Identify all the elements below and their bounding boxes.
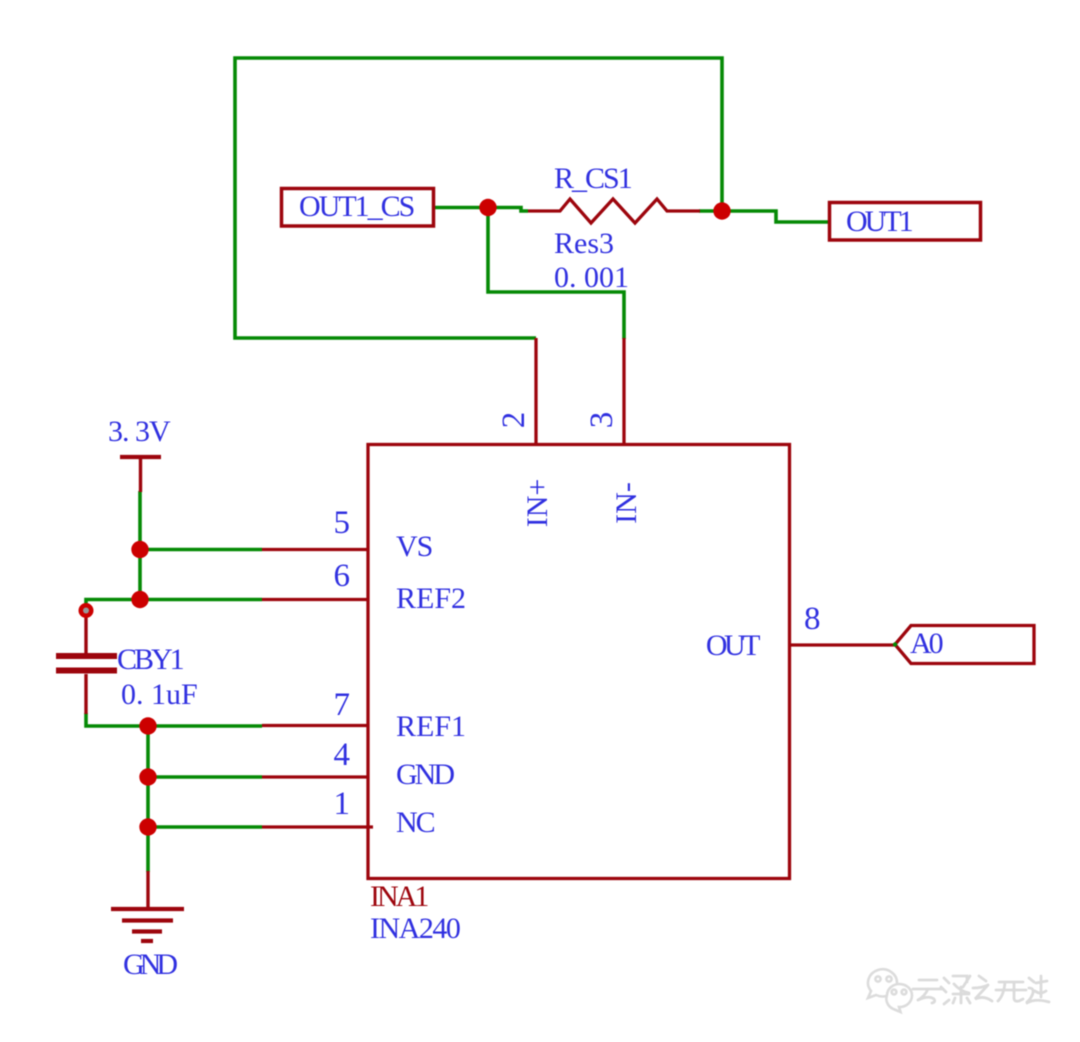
capacitor CBY1 xyxy=(56,612,117,714)
pin 3 IN- xyxy=(622,338,625,445)
junction rail / pin 6 xyxy=(131,591,148,608)
svg-text:REF2: REF2 xyxy=(396,582,466,615)
junction node / pin 1 xyxy=(139,818,156,835)
svg-text:INA1: INA1 xyxy=(370,880,428,913)
pin 2 IN+ xyxy=(534,338,537,445)
svg-text:CBY1: CBY1 xyxy=(117,643,184,676)
svg-text:GND: GND xyxy=(396,758,454,791)
resistor R_CS1 xyxy=(528,199,700,223)
svg-text:R_CS1: R_CS1 xyxy=(554,162,632,195)
wire: 3.3V rail vertical xyxy=(138,491,142,600)
junction rail / pin 5 xyxy=(131,541,148,558)
svg-text:INA240: INA240 xyxy=(370,912,460,945)
svg-text:2: 2 xyxy=(496,412,532,429)
svg-text:4: 4 xyxy=(334,737,351,773)
wire: node to pin NC xyxy=(148,825,262,829)
junction at OUT1_CS / R_CS1 xyxy=(479,199,496,216)
svg-text:IN+: IN+ xyxy=(521,479,554,528)
junction node / pin 4 xyxy=(139,768,156,785)
svg-text:REF1: REF1 xyxy=(396,710,466,743)
power symbol 3.3V bar xyxy=(120,457,161,492)
port A0 xyxy=(895,626,1034,664)
wire: capacitor bottom to REF1 node xyxy=(86,713,262,726)
wire: rail left to capacitor top xyxy=(86,600,140,613)
wire: junction down to IN- pin xyxy=(488,208,624,340)
svg-text:0. 001: 0. 001 xyxy=(554,261,629,294)
svg-text:0. 1uF: 0. 1uF xyxy=(121,678,198,711)
svg-text:1: 1 xyxy=(334,786,351,822)
svg-text:Res3: Res3 xyxy=(554,227,614,260)
net label box OUT1 xyxy=(830,203,981,241)
svg-text:OUT1_CS: OUT1_CS xyxy=(299,190,414,223)
svg-text:3: 3 xyxy=(584,412,620,429)
svg-text:NC: NC xyxy=(396,806,435,839)
pin 7 REF1 xyxy=(262,724,368,727)
svg-text:OUT1: OUT1 xyxy=(846,205,913,238)
wire: rail to pin REF2 xyxy=(140,598,262,602)
pin 4 GND xyxy=(262,775,368,778)
svg-text:5: 5 xyxy=(334,505,351,541)
wire: resistor right lead to OUT1 label xyxy=(699,211,830,222)
junction at R_CS1 / OUT1 xyxy=(713,202,730,219)
svg-text:IN-: IN- xyxy=(610,482,643,524)
svg-text:6: 6 xyxy=(334,558,351,594)
pin connection dot at A0 point xyxy=(893,642,897,646)
wire: OUT1_CS box to junction xyxy=(434,206,488,210)
wire: OUT1_CS loop (left vertical, top, right vertical) xyxy=(235,58,722,338)
wire: REF1 node down to GND stem xyxy=(146,726,150,872)
watermark text 云深之无迹 xyxy=(913,976,1049,1004)
wire: jog from junction to resistor left lead xyxy=(488,208,528,212)
pin 1 NC xyxy=(262,825,373,828)
svg-text:8: 8 xyxy=(804,601,821,637)
pin 6 REF2 xyxy=(262,598,368,601)
pin 5 VS xyxy=(262,548,368,551)
pin 8 OUT xyxy=(790,643,895,646)
svg-text:VS: VS xyxy=(396,530,432,563)
svg-text:3. 3V: 3. 3V xyxy=(108,415,171,448)
wire: node to pin GND xyxy=(148,775,262,779)
junction node / pin 7 xyxy=(139,717,156,734)
svg-text:7: 7 xyxy=(334,687,351,723)
svg-text:OUT: OUT xyxy=(706,629,760,662)
svg-text:GND: GND xyxy=(123,948,177,981)
wire: rail to pin VS xyxy=(140,548,262,552)
junction capacitor top (no-ERC) xyxy=(79,603,94,618)
watermark wechat icon xyxy=(868,969,912,1012)
svg-text:A0: A0 xyxy=(910,627,943,660)
op-amp U1 INA240 body xyxy=(368,445,790,879)
ground symbol xyxy=(111,871,184,941)
net label box OUT1_CS xyxy=(282,189,434,227)
